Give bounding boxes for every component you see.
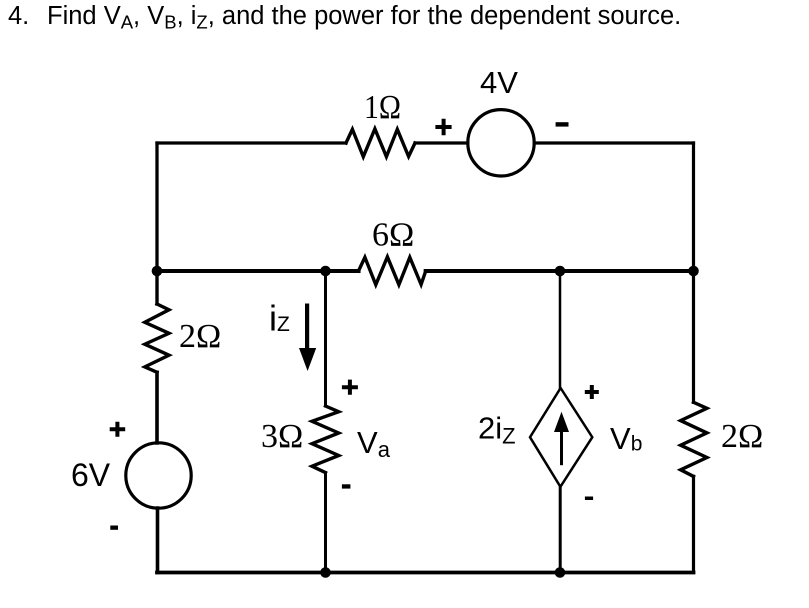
plus sign (4V left) [435,119,451,136]
svg-text:Find VA, VB, iZ, and the power: Find VA, VB, iZ, and the power for the d… [47,2,681,33]
voltage source V1 4V circle [468,110,534,176]
dependent source 2iz diamond [530,388,592,487]
junction node (dep branch, bottom rail) [555,567,566,578]
resistor R-6ohm zigzag [359,257,426,285]
junction node (right, middle rail) [688,266,699,277]
plus sign (6V top) [110,422,126,437]
plus sign (3ohm top, Va) [342,380,358,395]
wire right vertical top [692,143,695,271]
svg-text:4V: 4V [480,65,518,100]
svg-text:2Ω: 2Ω [721,418,763,455]
wire from 6V source to bottom rail [156,508,160,573]
svg-text:6V: 6V [71,457,111,493]
arrow inside dependent source [560,432,563,465]
svg-text:4.: 4. [8,2,29,30]
wire middle rail right segment [426,269,694,273]
wire right branch upper [692,271,695,402]
minus sign (4V right) [556,122,569,126]
resistor R-3ohm zigzag [312,406,339,473]
wire middle branch upper (node to 3ohm) [324,271,327,406]
svg-text:1Ω: 1Ω [364,89,401,126]
resistor R-1ohm zigzag [346,129,415,157]
minus sign (dep source bottom, Vb) [585,497,593,501]
svg-text:2Ω: 2Ω [179,318,221,355]
wire bottom rail [157,571,694,575]
wire right branch lower [692,476,695,572]
wire middle branch lower (3ohm to bottom rail) [324,473,327,573]
plus sign (dep source top, Vb) [585,385,599,399]
svg-text:3Ω: 3Ω [261,418,303,455]
wire from 1ohm to 4V source [415,141,468,144]
svg-text:Vb: Vb [610,421,642,456]
wire from 2ohm to 6V source [155,372,159,443]
junction node (dep branch, middle rail) [555,266,566,277]
wire middle rail left segment [157,269,359,273]
svg-text:2iZ: 2iZ [478,411,516,449]
junction node (middle branch, bottom rail) [320,567,331,578]
svg-text:iZ: iZ [269,298,290,339]
wire dependent-source branch lower [559,487,562,573]
resistor R-2ohm-right zigzag [681,402,707,476]
svg-text:6Ω: 6Ω [372,217,414,254]
minus sign (6V bottom) [110,526,118,530]
wire dependent-source branch upper [559,271,562,388]
junction node (middle branch, middle rail) [320,266,331,277]
junction node A (left, middle rail) [152,266,163,277]
wire left vertical from top rail to middle rail [155,143,158,271]
wire top rail right segment [534,141,693,144]
svg-text:Va: Va [357,425,391,462]
wire left vertical below middle rail [155,271,158,304]
resistor R-2ohm-left zigzag [145,304,169,372]
wire top rail left segment [157,141,346,144]
minus sign (3ohm bottom, Va) [342,484,351,488]
voltage source V2 6V circle [126,443,191,508]
current arrow iz [305,304,309,349]
